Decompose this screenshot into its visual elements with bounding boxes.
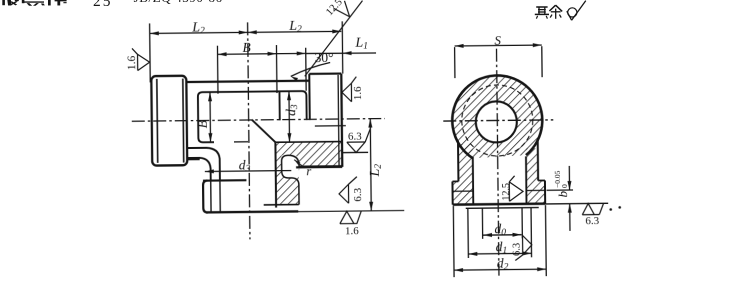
svg-text:6.3: 6.3 [348, 131, 362, 143]
svg-text:6.3: 6.3 [585, 215, 599, 227]
svg-text:b: b [555, 190, 570, 197]
svg-text:1.6: 1.6 [352, 86, 364, 100]
svg-text:B: B [242, 40, 250, 55]
svg-text:1.6: 1.6 [126, 55, 138, 70]
svg-text:S: S [494, 33, 501, 48]
svg-text:—JB/ZQ 4390-86: —JB/ZQ 4390-86 [119, 0, 223, 5]
svg-text:6.3: 6.3 [512, 243, 523, 256]
svg-text:r: r [306, 164, 311, 178]
svg-text:12.5: 12.5 [501, 183, 512, 201]
svg-text:6.3: 6.3 [352, 187, 364, 201]
svg-text:25: 25 [93, 0, 113, 10]
svg-text:B: B [195, 120, 210, 128]
svg-text:1.6: 1.6 [345, 225, 359, 237]
svg-text:−0.05: −0.05 [553, 170, 562, 188]
svg-text:30°: 30° [315, 50, 334, 65]
